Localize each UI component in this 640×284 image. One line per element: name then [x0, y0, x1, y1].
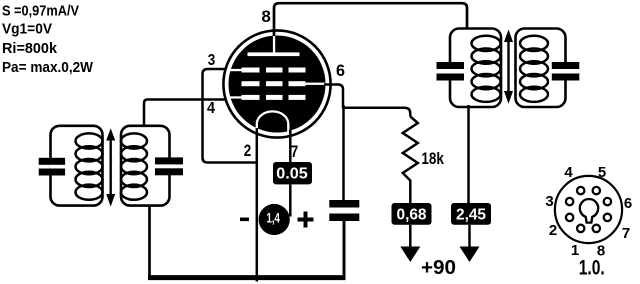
svg-text:18k: 18k — [421, 150, 444, 168]
coil L2b (T2 secondary winding, 5 turns) — [520, 36, 548, 102]
grid g2 dashed row with lead to pin 6 — [242, 81, 326, 86]
battery minus sign — [240, 218, 249, 222]
current label box 0,68 (screen current) — [392, 203, 432, 225]
battery plus sign — [298, 212, 314, 228]
wire resistor R1 to current label 0,68 — [409, 180, 412, 204]
svg-text:Ri=800k: Ri=800k — [2, 40, 58, 57]
coil L1b (T1 secondary winding, 5 turns) — [121, 133, 147, 199]
svg-text:4: 4 — [207, 100, 215, 117]
svg-text:S =0,97mA/V: S =0,97mA/V — [2, 3, 79, 20]
svg-text:8: 8 — [261, 7, 271, 26]
IF transformer T2 primary tank circuit loop — [450, 29, 501, 108]
wire pin 8 to anode supply rail — [274, 3, 467, 36]
wire screen branch to resistor R1 — [342, 108, 410, 117]
capacitor C3b plates (T2 secondary tuning capacitor) — [552, 62, 580, 81]
tube socket pinout: base circle — [555, 176, 622, 243]
socket pin 6 hole — [604, 198, 611, 205]
IF transformer T1 primary tank circuit loop — [51, 126, 103, 206]
socket pin 5 hole — [593, 187, 600, 194]
arrow to +90 supply (screen) — [400, 247, 420, 263]
IF transformer T1 secondary tank circuit loop — [121, 126, 170, 206]
svg-text:+90: +90 — [421, 257, 456, 279]
svg-text:4: 4 — [564, 164, 573, 181]
coil L1a (T1 primary winding, 5 turns) — [76, 133, 103, 199]
wire from T1 secondary top to grid node — [144, 100, 227, 127]
svg-text:Vg1=0V: Vg1=0V — [2, 21, 52, 38]
wire pins 3-4 tie loop and down to filament negative — [203, 69, 258, 163]
wire 2,45 box to +90 arrow — [468, 225, 471, 248]
svg-text:7: 7 — [291, 142, 299, 161]
ground rail (bottom return wire) — [148, 275, 346, 280]
wire anode supply down from T2 primary to 2,45 label — [467, 105, 470, 204]
grid g1 dashed row with lead to pin 4 — [230, 95, 306, 100]
pentode tube V1 electrode disc — [229, 36, 326, 133]
filament cathode dome (white inside disc) — [257, 111, 289, 131]
wire pin 6 down to bypass capacitor and right to resistor branch — [324, 85, 343, 109]
socket center spigot with key — [580, 199, 598, 223]
filament battery 1,4 V — [259, 204, 290, 235]
grid g3 dashed row with lead to pin 3 — [230, 68, 306, 73]
wire from 0.05 box to battery plus terminal — [289, 184, 292, 216]
coil L2a (T2 primary winding, 5 turns) — [472, 36, 501, 102]
svg-text:2: 2 — [244, 141, 252, 160]
anode lead from pin 8 (white inside disc) — [273, 36, 275, 56]
svg-text:1,4: 1,4 — [266, 210, 280, 226]
wire pin 7 down to current label 0.05 — [289, 130, 292, 164]
svg-text:0.05: 0.05 — [276, 166, 308, 183]
wire from T1 secondary bottom to ground rail — [148, 205, 151, 278]
arrow to +90 supply (anode) — [460, 247, 480, 263]
svg-text:3: 3 — [545, 193, 553, 210]
current label box 0.05 (filament current) — [273, 162, 312, 184]
capacitor C1a plates (T1 primary tuning capacitor) — [39, 158, 65, 176]
socket pin 2 hole — [566, 214, 573, 221]
capacitor C1b plates (T1 secondary tuning capacitor) — [155, 157, 183, 175]
svg-text:5: 5 — [598, 164, 606, 181]
anode plate line — [248, 52, 300, 56]
socket pin 8 hole — [593, 225, 600, 232]
socket pin 1 hole — [577, 225, 584, 232]
wire capacitor C2 to ground rail — [343, 221, 346, 278]
svg-text:7: 7 — [622, 225, 630, 242]
svg-text:0,68: 0,68 — [397, 206, 427, 223]
pentode tube V1 envelope — [223, 30, 330, 137]
wire pin 2 to filament battery minus / ground rail — [256, 128, 259, 282]
bypass capacitor C2 plates — [329, 200, 359, 221]
wire 0,68 box to +90 arrow — [409, 225, 412, 248]
wire pin 6 node down to capacitor C2 — [342, 105, 345, 201]
svg-text:6: 6 — [624, 195, 632, 212]
svg-text:6: 6 — [336, 62, 345, 80]
socket pin 3 hole — [566, 198, 573, 205]
IF transformer T2 secondary tank circuit loop — [516, 29, 566, 108]
svg-text:2,45: 2,45 — [456, 206, 486, 223]
svg-text:Pa= max.0,2W: Pa= max.0,2W — [2, 59, 94, 76]
svg-text:1.0.: 1.0. — [579, 257, 605, 280]
current label box 2,45 (anode current) — [451, 203, 491, 225]
socket pin 7 hole — [604, 214, 611, 221]
variable coupling arrow of transformer T2 — [504, 30, 513, 104]
variable coupling arrow of transformer T1 — [106, 128, 115, 206]
svg-text:3: 3 — [208, 52, 216, 69]
socket pin 4 hole — [577, 187, 584, 194]
capacitor C3a plates (T2 primary tuning capacitor) — [437, 62, 465, 81]
resistor R1 18k zigzag — [403, 117, 418, 181]
svg-text:2: 2 — [549, 222, 557, 239]
